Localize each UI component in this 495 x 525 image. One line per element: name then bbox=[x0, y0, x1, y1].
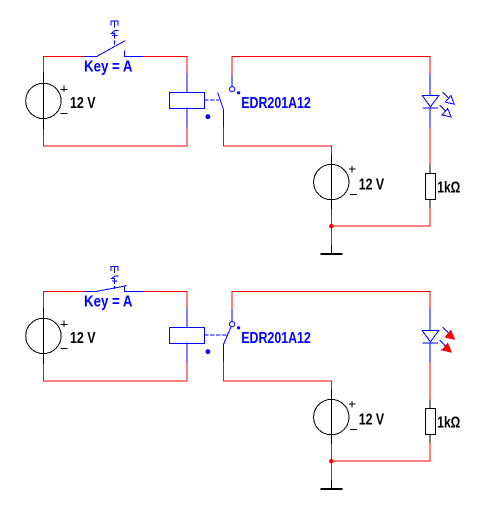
wire left-loop bottom segment bbox=[43, 380, 187, 382]
wire contact top lead blue bbox=[231, 310, 233, 322]
wire left-loop top-right segment bbox=[143, 290, 187, 292]
voltage source V4 12 V bbox=[314, 390, 357, 445]
wire junction to ground bbox=[330, 461, 332, 481]
wire left-loop top-right segment bbox=[143, 55, 187, 57]
wire left-loop bottom segment bbox=[43, 145, 187, 147]
svg-text:12 V: 12 V bbox=[359, 176, 385, 193]
svg-text:Key = A: Key = A bbox=[84, 294, 133, 311]
resistor R1 bbox=[426, 165, 436, 208]
wire contact top lead blue bbox=[231, 75, 233, 87]
wire right-loop top segment bbox=[232, 55, 430, 57]
wire right-loop right side upper bbox=[429, 291, 431, 308]
relay K2 coil-contact dashed link bbox=[204, 334, 226, 336]
wire right-loop right side upper bbox=[429, 56, 431, 73]
voltage source V2 12 V bbox=[314, 155, 357, 210]
wire source V2 to junction bbox=[330, 210, 332, 227]
wire contact bottom lead blue bbox=[222, 110, 224, 128]
wire coil top lead bbox=[186, 73, 188, 92]
svg-text:1kΩ: 1kΩ bbox=[437, 414, 460, 431]
wire left-loop left side lower bbox=[42, 129, 44, 146]
wire left-loop left side lower bbox=[42, 364, 44, 381]
wire contact bottom lead blue bbox=[222, 344, 224, 362]
wire junction to ground bbox=[330, 226, 332, 246]
svg-text:1kΩ: 1kΩ bbox=[437, 179, 460, 196]
svg-text:12 V: 12 V bbox=[70, 330, 96, 347]
wire left-loop top-left segment bbox=[43, 56, 85, 73]
svg-text:Key = A: Key = A bbox=[84, 59, 133, 76]
relay coil K2 bbox=[170, 328, 205, 344]
wire LED to resistor bbox=[429, 128, 431, 165]
wire right-loop bottom segment bbox=[331, 225, 430, 227]
wire contact top lead red bbox=[231, 56, 233, 75]
wire right-loop top segment bbox=[232, 290, 430, 292]
svg-text:12 V: 12 V bbox=[359, 411, 385, 428]
wire contact top lead red bbox=[231, 291, 233, 310]
wire coil top lead bbox=[186, 308, 188, 327]
ground bbox=[322, 481, 342, 489]
LED LED1 (off) bbox=[422, 74, 439, 128]
LED2 light arrows (lit, red filled) bbox=[440, 328, 455, 353]
wire right-loop bottom segment bbox=[331, 460, 430, 462]
voltage source V1 12 V bbox=[26, 73, 67, 129]
wire left-loop right side lower bbox=[186, 127, 188, 146]
wire coil bottom lead bbox=[186, 343, 188, 362]
wire contact bottom lead red bbox=[223, 128, 331, 155]
relay coil K1 bbox=[170, 93, 205, 109]
wire resistor to bottom bbox=[429, 208, 431, 226]
switch S1 key symbol bbox=[111, 21, 118, 44]
wire left-loop right side upper bbox=[186, 56, 188, 73]
switch S2 key symbol bbox=[111, 267, 118, 289]
wire source V4 to junction bbox=[330, 445, 332, 462]
relay K1 coil-contact dashed link bbox=[204, 99, 218, 101]
svg-text:12 V: 12 V bbox=[70, 95, 96, 112]
switch S1 (Key = A) open bbox=[85, 41, 143, 57]
wire left-loop top-left segment bbox=[43, 291, 85, 308]
junction node bbox=[329, 224, 333, 228]
wire coil bottom lead bbox=[186, 108, 188, 127]
junction node bbox=[329, 459, 333, 463]
LED LED2 (lit) bbox=[422, 309, 439, 363]
relay contact K1 (open) bbox=[206, 87, 240, 119]
wire LED to resistor bbox=[429, 363, 431, 400]
switch S2 (Key = A) closed bbox=[85, 286, 143, 292]
relay contact K2 (closed) bbox=[206, 322, 240, 354]
ground bbox=[322, 246, 342, 254]
svg-text:EDR201A12: EDR201A12 bbox=[241, 95, 310, 112]
wire left-loop right side upper bbox=[186, 291, 188, 308]
svg-text:EDR201A12: EDR201A12 bbox=[241, 330, 310, 347]
wire left-loop right side lower bbox=[186, 362, 188, 381]
LED1 light arrows (unlit, outline) bbox=[440, 93, 455, 118]
voltage source V3 12 V bbox=[26, 308, 67, 364]
resistor R2 bbox=[426, 400, 436, 443]
wire contact bottom lead red bbox=[223, 363, 331, 390]
wire resistor to bottom bbox=[429, 443, 431, 461]
